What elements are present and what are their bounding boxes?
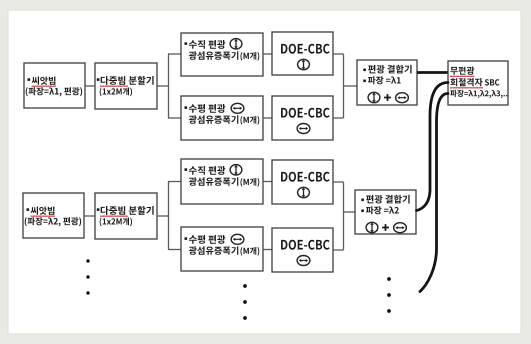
wire junction2-E1 xyxy=(344,85,358,87)
wire B1-junction xyxy=(157,85,169,87)
box D4: DOE-CBC horizontal row2 xyxy=(272,228,333,272)
thick curved wire E2-F xyxy=(417,83,449,211)
box F: unpolarized diffraction grating SBC xyxy=(448,61,508,105)
wire C1-D1 xyxy=(263,53,272,55)
box D3: DOE-CBC vertical row2 xyxy=(272,160,333,204)
wire C2-D2 xyxy=(263,117,272,119)
thick curved wire lower tail to F xyxy=(420,94,448,292)
box C2: horizontal polarization fiber amplifier row1 xyxy=(181,96,263,140)
box A2: seed beam λ2 (씨앗빔) xyxy=(23,193,84,238)
box D2: DOE-CBC horizontal row1 xyxy=(272,96,333,140)
box E1: polarization combiner λ1 (편광 결합기) xyxy=(357,60,417,105)
box C3: vertical polarization fiber amplifier row2 xyxy=(181,159,263,204)
wire junction-C2 xyxy=(168,117,181,119)
wire junction vertical row1 xyxy=(168,54,170,118)
wire D1-junction2 xyxy=(333,53,344,55)
box B1: multi-beam splitter (다중빔 분할기) xyxy=(95,63,157,109)
wire junction2 vertical row2 xyxy=(343,182,345,250)
wire B2-junction row2 xyxy=(157,215,169,217)
box C1: vertical polarization fiber amplifier row1 xyxy=(181,33,263,76)
wire junction2-E2 xyxy=(344,211,356,213)
box B2: multi-beam splitter row2 xyxy=(95,193,157,239)
wire D4-junction2 row2 xyxy=(333,249,344,251)
box D1: DOE-CBC vertical row1 xyxy=(272,32,333,75)
wire junction2 vertical row1 xyxy=(343,54,345,118)
ellipsis dots under combiner column xyxy=(387,277,391,313)
wire C4-D4 xyxy=(263,249,272,251)
box A1: seed beam λ1 (씨앗빔) xyxy=(24,63,85,108)
wire D2-junction2 xyxy=(333,117,344,119)
wire junction-C4 xyxy=(168,249,181,251)
wire junction-C3 xyxy=(168,181,181,183)
wire C3-D3 xyxy=(263,181,272,183)
thick wire E1-F xyxy=(417,71,448,74)
ellipsis dots under seed beam column xyxy=(86,259,89,294)
wire A1-B1 xyxy=(85,85,95,87)
ellipsis dots under amplifier column xyxy=(243,284,247,320)
box E2: polarization combiner λ2 xyxy=(355,190,416,234)
wire junction-C1 xyxy=(168,53,181,55)
wire D3-junction2 row2 xyxy=(333,181,344,183)
wire junction vertical row2 xyxy=(168,182,170,250)
box C4: horizontal polarization fiber amplifier row2 xyxy=(181,227,263,271)
wire A2-B2 xyxy=(84,215,95,217)
